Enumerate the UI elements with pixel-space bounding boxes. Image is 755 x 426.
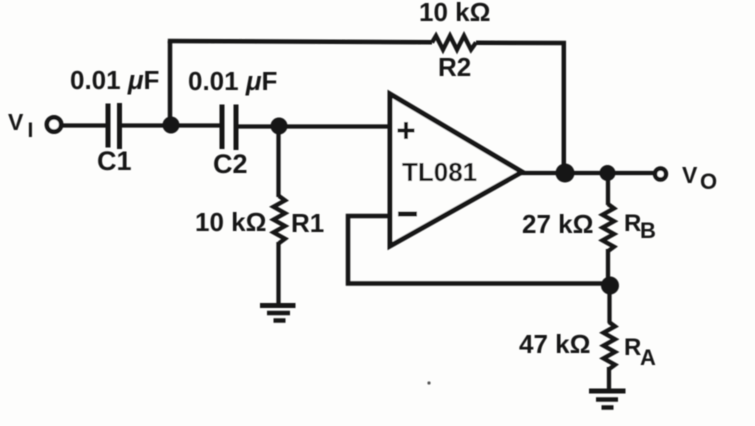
label VO	[682, 162, 717, 194]
label VI	[8, 109, 33, 142]
node VI input terminal	[47, 117, 61, 131]
resistor RB	[603, 204, 615, 251]
svg-text:R: R	[624, 334, 641, 361]
wire RA top lead	[607, 286, 611, 323]
wire C2 to op-amp plus input	[238, 124, 390, 128]
svg-text:TL081: TL081	[402, 157, 477, 187]
svg-text:C2: C2	[213, 149, 248, 179]
label C2 value 0.01 uF	[188, 66, 277, 96]
svg-text:V: V	[8, 109, 24, 135]
svg-text:R: R	[624, 210, 641, 237]
capacitor C2	[222, 105, 236, 151]
label RB	[624, 210, 656, 243]
svg-text:V: V	[682, 162, 698, 188]
label RB value 27 kOhm	[522, 209, 593, 239]
label RA	[624, 334, 656, 370]
op-amp plus pin mark	[398, 122, 415, 139]
svg-text:0.01 μF: 0.01 μF	[70, 65, 159, 95]
node output junction dot	[556, 164, 575, 183]
label RA value 47 kOhm	[519, 329, 590, 359]
wire top feedback right segment and down to output	[476, 43, 564, 173]
capacitor C1	[108, 103, 120, 149]
node A junction dot C1-C2	[163, 117, 180, 134]
label C2	[213, 149, 248, 179]
svg-text:R1: R1	[291, 208, 324, 238]
label C1 value 0.01 uF	[70, 65, 159, 95]
wire junction A up to feedback top	[168, 41, 173, 125]
svg-text:B: B	[640, 218, 656, 243]
label C1	[97, 146, 132, 176]
svg-text:O: O	[700, 169, 717, 194]
scan speck	[427, 381, 430, 384]
svg-text:C1: C1	[97, 146, 132, 176]
resistor RA	[604, 322, 616, 369]
label R1 value 10 kOhm	[195, 207, 266, 237]
op-amp U1 TL081	[390, 94, 522, 246]
svg-text:27 kΩ: 27 kΩ	[522, 209, 593, 239]
svg-text:47 kΩ: 47 kΩ	[519, 329, 590, 359]
node B junction dot C2-R1	[271, 118, 288, 135]
op-amp minus pin mark	[398, 212, 417, 217]
label R1	[291, 208, 324, 238]
wire RB top lead	[606, 173, 610, 205]
wire C1 to C2	[122, 123, 220, 127]
label R2	[438, 52, 471, 82]
wire feedback from minus input to node C	[348, 216, 606, 284]
wire op-amp output	[521, 171, 654, 175]
wire input to C1	[62, 123, 107, 127]
resistor R1	[274, 196, 286, 243]
label U1 TL081	[402, 157, 477, 187]
svg-text:A: A	[640, 345, 656, 370]
wire top feedback left segment	[168, 41, 432, 42]
svg-text:I: I	[28, 119, 34, 142]
node VO output terminal	[655, 169, 666, 180]
ground below R1	[260, 306, 296, 321]
node RB top junction dot	[600, 165, 616, 181]
node C junction dot RB-RA	[601, 277, 619, 295]
svg-text:10 kΩ: 10 kΩ	[419, 0, 490, 27]
wire junction B down to R1	[276, 126, 280, 197]
ground below RA	[589, 391, 626, 408]
resistor R2	[432, 36, 476, 50]
wire RA to ground	[607, 367, 611, 391]
wire RB bottom lead to node C	[606, 249, 610, 286]
svg-text:R2: R2	[438, 52, 471, 82]
label R2 value 10 kOhm	[419, 0, 490, 27]
svg-text:10 kΩ: 10 kΩ	[195, 207, 266, 237]
wire R1 to ground	[276, 242, 280, 305]
svg-text:0.01 μF: 0.01 μF	[188, 66, 277, 96]
